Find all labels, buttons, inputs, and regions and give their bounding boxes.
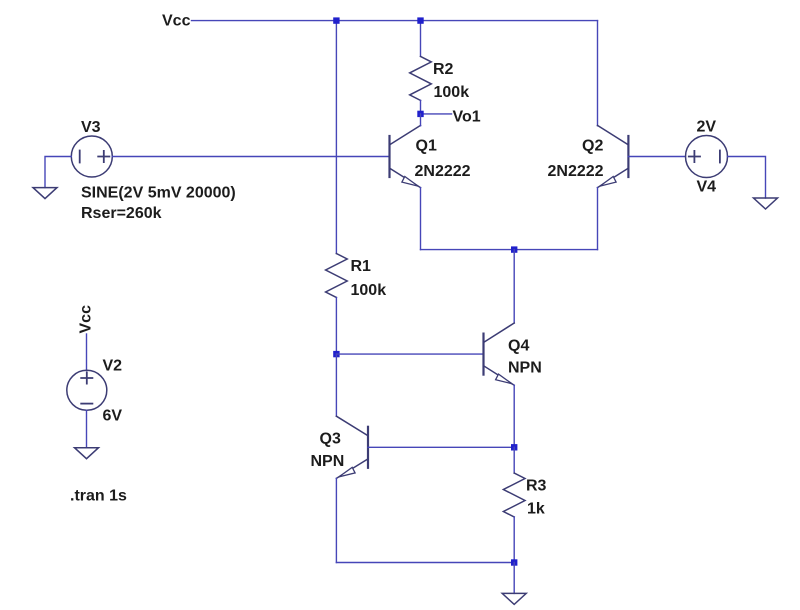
wire: Q1 collector to Vo1 node — [420, 114, 422, 126]
junction: R1 / Q3 collector / Q4 base — [333, 351, 339, 357]
voltage source V3 — [71, 136, 112, 177]
svg-text:1k: 1k — [527, 501, 545, 518]
wire: V4 minus to ground — [728, 157, 766, 199]
ground (V3) — [33, 188, 57, 199]
junction: emitter rail / Q4 collector — [511, 246, 517, 252]
junction: top rail / R1 branch — [333, 17, 339, 23]
wire: top rail down to R1 branch (crosses V3 base wire, no junction) — [335, 21, 337, 254]
svg-text:R1: R1 — [351, 258, 372, 275]
wire: base bus to Q4 — [336, 353, 483, 355]
svg-text:Q4: Q4 — [508, 338, 529, 355]
svg-text:Q2: Q2 — [582, 138, 603, 155]
wire: Q2 emitter down — [597, 188, 599, 250]
svg-text:Vcc: Vcc — [78, 305, 95, 334]
wire: Vo1 stub — [421, 113, 452, 115]
wire: R2 bottom lead to Vo1 node — [420, 100, 422, 114]
svg-text:6V: 6V — [103, 408, 123, 425]
svg-text:2N2222: 2N2222 — [548, 163, 604, 180]
wire: V3 plus to Q1 base — [112, 156, 389, 158]
svg-text:Vcc: Vcc — [162, 13, 191, 30]
svg-text:2N2222: 2N2222 — [415, 163, 471, 180]
wire: Q3 emitter down — [335, 478, 337, 562]
voltage source V4 — [686, 136, 728, 178]
junction: top rail / R2 — [417, 17, 423, 23]
wire: R3 bottom lead — [513, 517, 515, 563]
wire: Q3 base to R3 node — [368, 446, 514, 448]
V3 plus mark — [98, 151, 109, 162]
transistor Q3 (mirrored) — [336, 416, 368, 478]
svg-text:2V: 2V — [697, 119, 717, 136]
V2 plus mark — [81, 372, 92, 383]
wire: stub to ground — [513, 563, 515, 594]
transistor Q4 — [484, 323, 515, 385]
wire: top rail down to Q2 collector — [597, 21, 599, 126]
svg-text:Q3: Q3 — [320, 431, 341, 448]
junction: Vo1 node (R2 / Q1 collector) — [417, 111, 423, 117]
svg-text:R3: R3 — [526, 478, 547, 495]
wire: V3 minus to ground — [45, 157, 71, 188]
ground (V2) — [75, 448, 99, 459]
wire: Q4 emitter down — [513, 385, 515, 447]
svg-text:Vo1: Vo1 — [453, 109, 481, 126]
svg-text:NPN: NPN — [311, 453, 345, 470]
svg-text:SINE(2V 5mV 20000): SINE(2V 5mV 20000) — [81, 185, 236, 202]
wire: R1 bottom to base bus — [335, 298, 337, 355]
svg-text:R2: R2 — [433, 61, 454, 78]
resistor R2 — [410, 56, 432, 100]
transistor Q1 — [390, 125, 421, 187]
svg-text:V4: V4 — [697, 179, 717, 196]
wire: R3 top lead — [513, 447, 515, 473]
wire: Q2 base to V4 — [628, 156, 685, 158]
V4 plus mark — [689, 151, 700, 162]
resistor R3 — [503, 473, 525, 517]
junction: Q4 emitter / Q3 base / R3 — [511, 444, 517, 450]
ground (bottom) — [502, 593, 526, 604]
wire: Q4 collector up to emitter rail — [513, 250, 515, 323]
svg-text:V3: V3 — [81, 119, 101, 136]
wire: Q3 collector up — [335, 354, 337, 416]
svg-text:Rser=260k: Rser=260k — [81, 205, 162, 222]
resistor R1 — [326, 254, 348, 298]
svg-text:Q1: Q1 — [416, 138, 437, 155]
junction: bottom rail / ground — [511, 559, 517, 565]
V2 minus mark — [81, 403, 92, 405]
svg-text:100k: 100k — [351, 282, 387, 299]
wire: emitter rail Q1-Q2 — [421, 249, 598, 251]
wire: Vcc label to V2 — [86, 334, 88, 371]
svg-text:NPN: NPN — [508, 360, 542, 377]
svg-text:V2: V2 — [103, 358, 123, 375]
svg-text:100k: 100k — [434, 84, 470, 101]
wire: bottom ground rail — [336, 562, 514, 564]
wire: Vcc top rail — [192, 20, 598, 22]
svg-text:.tran 1s: .tran 1s — [70, 488, 127, 505]
V4 minus mark — [719, 151, 721, 163]
voltage source V2 — [67, 370, 107, 410]
wire: R2 top lead — [420, 21, 422, 57]
ground (V4) — [754, 198, 778, 209]
transistor Q2 (mirrored) — [598, 125, 629, 187]
wire: V2 minus to ground — [86, 410, 88, 447]
V3 minus mark — [79, 151, 81, 163]
wire: Q1 emitter down — [420, 188, 422, 250]
